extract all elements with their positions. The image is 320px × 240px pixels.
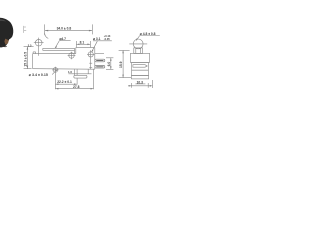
svg-text:1.6: 1.6 [68,70,72,74]
svg-text:15.9: 15.9 [119,61,123,68]
svg-text:22.2 ± 0.1: 22.2 ± 0.1 [57,80,72,84]
svg-text:-0.05: -0.05 [104,37,110,41]
svg-text:⌀ 3.4 ± 0.15: ⌀ 3.4 ± 0.15 [29,73,48,77]
svg-text:⌀4.7: ⌀4.7 [59,37,66,41]
svg-text:6.0: 6.0 [107,62,111,67]
svg-text:15.3 ± 0.5: 15.3 ± 0.5 [23,52,27,67]
svg-text:27.8: 27.8 [73,85,80,89]
svg-text:⌀ 3.1: ⌀ 3.1 [93,37,101,41]
svg-text:2.5: 2.5 [28,43,32,47]
svg-text:34.0 ± 0.8: 34.0 ± 0.8 [57,26,72,30]
svg-text:10.3: 10.3 [137,80,144,84]
svg-text:8.1: 8.1 [80,40,85,44]
svg-text:⌀ 4.8 ± 0.8: ⌀ 4.8 ± 0.8 [140,32,156,36]
